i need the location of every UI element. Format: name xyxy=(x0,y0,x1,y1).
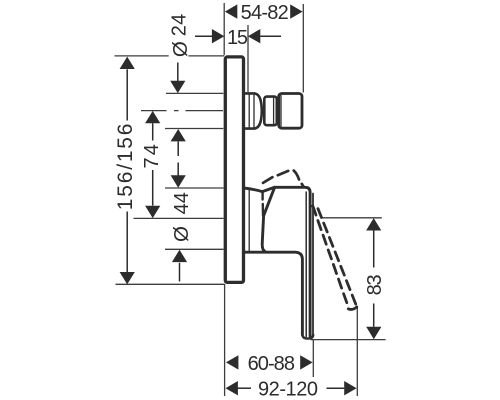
svg-text:15: 15 xyxy=(227,27,248,49)
svg-text:156/156: 156/156 xyxy=(114,122,137,211)
svg-text:Ø: Ø xyxy=(169,41,192,57)
svg-text:83: 83 xyxy=(364,275,386,296)
svg-text:74: 74 xyxy=(141,142,163,169)
svg-text:54-82: 54-82 xyxy=(241,2,289,24)
svg-text:24: 24 xyxy=(169,14,191,37)
svg-text:92-120: 92-120 xyxy=(258,379,318,400)
svg-text:44: 44 xyxy=(171,192,193,214)
svg-text:60-88: 60-88 xyxy=(248,353,295,375)
svg-text:Ø: Ø xyxy=(170,226,193,242)
